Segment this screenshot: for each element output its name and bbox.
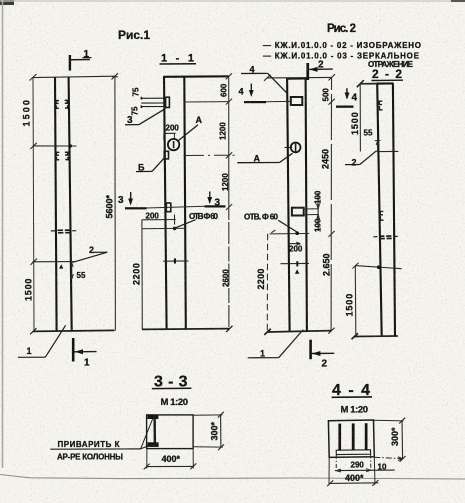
hand hole square K2 [291, 97, 303, 105]
dimension line 5600 right of K1 [105, 76, 116, 330]
dimension 55 2-2 [364, 129, 381, 152]
column K2 section 2-2 outline [377, 83, 396, 336]
column K1 elevation outline [55, 77, 72, 331]
dimension 100/100 [314, 190, 323, 232]
dimension 55 K1 [70, 262, 86, 280]
title 2-2 [372, 67, 404, 81]
right dimension line K2 [328, 77, 335, 333]
dimension 200 top [164, 124, 180, 141]
weld note leader [50, 418, 153, 462]
hole A circle K2 [285, 143, 301, 153]
dimension 1500 top 2-2 [350, 80, 377, 151]
section mark 3 (left) [118, 192, 147, 209]
right dimension line of 1-1 [226, 73, 233, 332]
dimension 400 of 4-4 [327, 457, 378, 486]
section mark 1 (bottom) [72, 338, 97, 369]
section 4-4 plan rectangle [328, 420, 374, 457]
extension line left of K1 [33, 78, 34, 332]
embed plate at cut level [166, 203, 171, 212]
title Fig.1 [118, 28, 150, 42]
dimension 300 of 3-3 [193, 412, 224, 450]
section 3-3 plan rectangle [147, 415, 194, 449]
dimension 290 and 10 of 4-4 [335, 454, 395, 472]
slot hole K2 [292, 208, 319, 216]
dimension 200 mid [142, 212, 176, 225]
joint mark 1-1 [163, 258, 188, 263]
section mark 2 (top) [306, 60, 332, 81]
section mark 4 (left of 2-2) [336, 88, 358, 108]
title 4-4 [332, 382, 372, 416]
leader 3 to rod [125, 109, 166, 126]
title 3-3 [152, 374, 192, 409]
dimension 1200 lower [221, 173, 230, 191]
joint mark K2 [281, 261, 310, 266]
section mark 2 (bottom) [309, 340, 334, 370]
dimension 1500 bottom 2-2 [345, 266, 356, 336]
extension line 600 level [185, 101, 229, 103]
centerline at B level [184, 154, 235, 156]
section mark 4 (left of K2) [239, 84, 267, 104]
legend line 1 [263, 41, 421, 50]
dimension 200 K2 [289, 242, 303, 253]
dimension 300 of 4-4 [374, 418, 406, 462]
bottom line K2 [264, 329, 331, 335]
rod end plate [166, 97, 170, 107]
title Fig.2 [327, 23, 356, 35]
anchor rod with 75/75 dims [141, 97, 166, 108]
leader 4 to top plate [241, 65, 286, 93]
weld triangle K2 [295, 269, 300, 273]
bottom line 2-2 [352, 333, 398, 339]
section 3-3 cut line across column [147, 206, 206, 208]
leader B [136, 158, 164, 173]
dimension 1500 upper K1 [22, 98, 77, 149]
rib bars in 4-4 [338, 423, 367, 450]
column K2 outline (Fig.2) [286, 78, 307, 331]
level line at leader 2 [31, 259, 74, 265]
embed bracket 2-2 top [379, 101, 382, 110]
bottom line 1-1 [142, 326, 233, 332]
weld triangle K1 [59, 264, 63, 268]
leader 2 on 2-2 [345, 151, 377, 168]
dimension 2600 [222, 269, 231, 287]
bottom line K1 [30, 328, 115, 334]
joint mark 2-2 [373, 236, 397, 239]
joint mark K1 [51, 230, 76, 233]
leader 1 bottom K1 [18, 325, 66, 357]
leader A [179, 115, 203, 140]
dimension 2200 K2 [256, 268, 266, 289]
left extension dashed K2 [266, 234, 268, 332]
embed bracket 2-2 mid [380, 211, 383, 220]
base strip in 4-4 [336, 450, 370, 455]
level line 1500 bottom 2-2 [377, 150, 399, 152]
dimension 500 [322, 88, 331, 102]
label hole dia 60 [175, 212, 218, 228]
dimension 1500 lower K1 [24, 278, 34, 301]
dimension 2200 line [132, 220, 143, 329]
top dimension line K2 [264, 74, 335, 81]
embed plate channel in 3-3 [147, 415, 158, 447]
section 4-4 cut line [266, 100, 291, 102]
legend line 2 [263, 52, 420, 70]
dimension 600 [220, 83, 229, 97]
dimension 75 upper [132, 87, 141, 96]
leader 1 bottom K2 [248, 330, 304, 359]
embed plates K1 second pair [56, 152, 68, 160]
hole axis line 1-1 [142, 227, 186, 231]
hole axis line K2 [270, 230, 310, 235]
leader 2 on K1 [73, 245, 108, 262]
embed plate B [164, 151, 168, 159]
dimension 2450 [321, 149, 331, 169]
section mark 1 (top) [69, 49, 92, 71]
section mark 3 (right) [205, 192, 226, 209]
dimension 75 lower [131, 106, 140, 115]
label hole dia 60 K2 [244, 213, 297, 232]
hole A circle [168, 139, 179, 150]
dimension line top of K1 [30, 73, 119, 80]
dimension 2650 [322, 253, 332, 276]
title 1-1 [160, 53, 197, 65]
leader A on K2 [237, 153, 292, 163]
level line with dot 2-2 [352, 263, 401, 269]
column K1 section 1-1 outline [163, 76, 229, 329]
dimension 1200 upper [219, 122, 228, 140]
dimension 400 of 3-3 [144, 447, 197, 469]
embed plates K1 upper pair [56, 100, 68, 108]
